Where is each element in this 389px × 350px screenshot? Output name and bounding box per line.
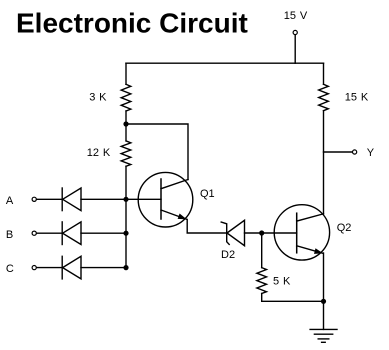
svg-text:B: B [6,229,13,241]
svg-text:Q1: Q1 [200,188,215,200]
svg-text:3 K: 3 K [89,91,107,103]
svg-text:Y: Y [367,147,375,159]
svg-text:15 V: 15 V [284,10,308,22]
svg-text:D2: D2 [221,249,235,261]
svg-text:Electronic Circuit: Electronic Circuit [16,8,248,39]
svg-text:12 K: 12 K [87,147,111,159]
svg-text:5 K: 5 K [273,276,291,288]
svg-text:A: A [6,195,14,207]
svg-text:15 K: 15 K [345,92,369,104]
svg-text:C: C [6,263,14,275]
svg-text:Q2: Q2 [337,222,352,234]
